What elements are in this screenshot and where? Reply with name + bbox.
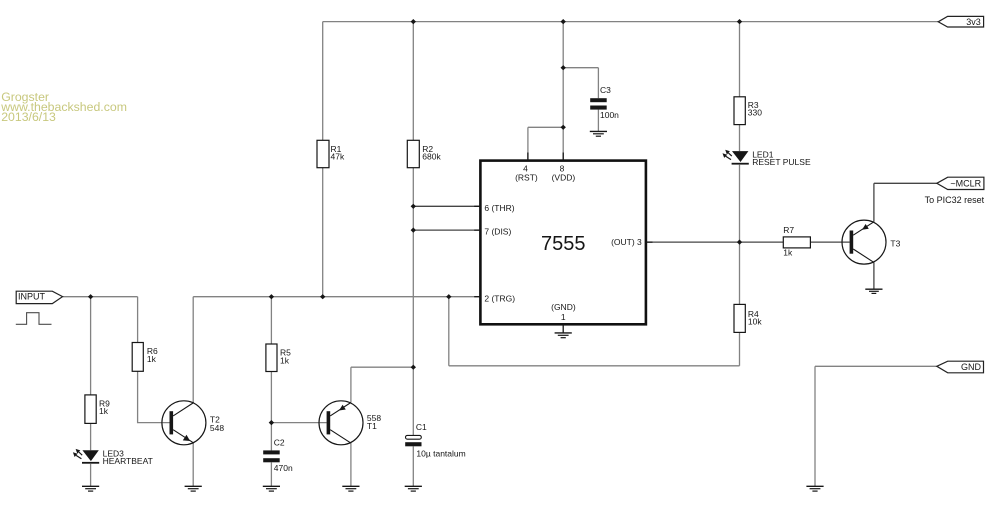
wire C3 top lead: [597, 68, 599, 99]
svg-text:T3: T3: [890, 239, 900, 249]
svg-text:1: 1: [561, 312, 566, 322]
LED LED1: [723, 149, 811, 167]
wire LED1 to OUT node: [739, 165, 741, 242]
transistor T1: [319, 401, 381, 445]
svg-text:1k: 1k: [99, 406, 109, 416]
wire R2 column top: [412, 22, 414, 141]
ground below C2: [263, 486, 280, 491]
svg-text:1k: 1k: [783, 248, 793, 258]
wire T1 bottom to ground: [350, 443, 352, 486]
svg-text:(GND): (GND): [551, 302, 576, 312]
junction OUT-R4: [737, 240, 742, 245]
resistor R5: [266, 344, 291, 372]
wire R2 to THR node: [412, 168, 414, 207]
svg-text:6 (THR): 6 (THR): [484, 203, 514, 213]
junction rail-R3: [737, 19, 742, 24]
wire C2 to ground: [270, 462, 272, 486]
wire VDD column: [562, 22, 564, 160]
svg-text:GND: GND: [961, 362, 982, 372]
wire T3 to MCLR tag: [874, 182, 937, 184]
wire T2 collector vertical: [192, 297, 194, 403]
junction DIS node: [411, 228, 416, 233]
svg-text:3v3: 3v3: [966, 17, 981, 27]
wire TRG row: [193, 296, 480, 298]
wire THR node to DIS node: [412, 206, 414, 230]
wire INPUT horizontal: [63, 296, 138, 298]
svg-text:T1: T1: [367, 421, 377, 431]
svg-text:7555: 7555: [541, 233, 586, 255]
wire T2 emitter to ground: [192, 443, 194, 486]
wire T3 top vertical: [873, 183, 875, 222]
svg-text:C1: C1: [416, 422, 427, 432]
junction rail-VDD: [561, 19, 566, 24]
svg-text:10k: 10k: [748, 316, 762, 326]
junction TRG-loop: [446, 294, 451, 299]
junction TRG-R1: [320, 294, 325, 299]
title text block: [0, 90, 127, 124]
junction INPUT-R9: [88, 294, 93, 299]
ground below LED3: [82, 486, 99, 491]
wire R4 bottom lead: [739, 332, 741, 365]
wire R6 top lead: [137, 297, 139, 343]
resistor R4: [734, 304, 762, 332]
wire C2 top lead: [270, 423, 272, 451]
IC pin stubs: [474, 153, 652, 333]
resistor R2: [407, 140, 441, 167]
ground below T2: [185, 486, 202, 491]
wire R6 bottom lead: [138, 371, 170, 422]
ground below C1: [405, 486, 422, 491]
wire R9 top lead: [90, 297, 92, 395]
ground below IC pin 1: [555, 333, 572, 338]
svg-text:C2: C2: [274, 437, 285, 447]
wire GND tag horizontal: [815, 365, 937, 367]
wire R4 bottom loop horizontal: [449, 365, 740, 367]
junction TRG-R5: [269, 294, 274, 299]
wire C3 bottom lead: [597, 110, 599, 132]
wire loop up to TRG row: [448, 297, 450, 366]
node INPUT tag: [16, 291, 62, 303]
wire R5 top lead: [270, 297, 272, 344]
svg-text:470n: 470n: [274, 463, 293, 473]
node 3v3 tag: [938, 16, 983, 27]
wire LED3 to ground: [90, 464, 92, 487]
wire T1 top horizontal to C1 node: [351, 366, 413, 368]
wire OUT node to R4: [739, 242, 741, 304]
svg-text:330: 330: [748, 108, 762, 118]
resistor R3: [734, 97, 762, 125]
node GND tag: [937, 361, 984, 373]
svg-text:2 (TRG): 2 (TRG): [484, 293, 515, 303]
svg-text:INPUT: INPUT: [18, 291, 46, 301]
LED LED3: [73, 449, 153, 466]
svg-text:(VDD): (VDD): [552, 173, 576, 183]
resistor R9: [85, 395, 110, 424]
resistor R7: [783, 225, 810, 258]
svg-text:680k: 680k: [422, 152, 441, 162]
wire T1 base horizontal: [271, 422, 326, 424]
wire THR pin: [413, 205, 480, 207]
wire OUT to R7: [646, 241, 783, 243]
resistor R1: [317, 140, 345, 167]
svg-text:RESET PULSE: RESET PULSE: [752, 157, 811, 167]
svg-text:To PIC32 reset: To PIC32 reset: [925, 195, 985, 205]
node ~MCLR tag: [937, 177, 984, 189]
svg-text:C3: C3: [600, 85, 611, 95]
svg-text:R7: R7: [783, 225, 794, 235]
wire R3 to LED1: [739, 125, 741, 152]
wire R9 to LED3: [90, 423, 92, 450]
junction T1 base node: [269, 420, 274, 425]
wire DIS node down to C1: [412, 230, 414, 435]
wire C3 branch horizontal: [563, 67, 598, 69]
junction rail-R2: [411, 19, 416, 24]
junction pin4 branch: [561, 125, 566, 130]
ground below T1: [342, 486, 359, 491]
capacitor C2: [263, 437, 293, 473]
wire DIS pin: [413, 229, 480, 231]
wire R1 column bottom to TRG row: [322, 168, 324, 297]
svg-text:(RST): (RST): [515, 173, 538, 183]
svg-text:7 (DIS): 7 (DIS): [484, 227, 511, 237]
svg-text:~MCLR: ~MCLR: [950, 178, 981, 188]
ground below T3: [865, 289, 882, 293]
wire 3v3 top rail: [323, 21, 939, 23]
ground below C3: [590, 131, 607, 136]
wire pin4 vertical: [527, 127, 529, 160]
resistor R6: [132, 343, 158, 372]
svg-text:1k: 1k: [280, 355, 290, 365]
wire pin4 branch horizontal: [528, 126, 563, 128]
wire R5 bottom lead: [270, 372, 272, 423]
transistor T3: [842, 220, 901, 264]
wire T1 top lead: [350, 367, 352, 402]
wire R3 column top: [739, 22, 741, 97]
svg-text:2013/6/13: 2013/6/13: [1, 110, 56, 124]
svg-text:100n: 100n: [600, 110, 619, 120]
junction C1 node: [411, 365, 416, 370]
wire R1 column top: [322, 22, 324, 141]
svg-text:(OUT) 3: (OUT) 3: [611, 237, 642, 247]
junction THR node: [411, 204, 416, 209]
op-amp U1 7555 timer IC body: [480, 161, 646, 325]
wire GND tag vertical to ground: [814, 366, 816, 486]
junction C3 branch: [561, 65, 566, 70]
wire C1 to ground: [412, 446, 414, 486]
input pulse symbol: [16, 313, 52, 325]
svg-text:548: 548: [210, 423, 224, 433]
capacitor C3: [590, 85, 619, 120]
wire R7 to T3 base: [810, 241, 849, 243]
svg-text:HEARTBEAT: HEARTBEAT: [103, 456, 153, 466]
svg-text:10µ tantalum: 10µ tantalum: [416, 449, 465, 459]
capacitor C1: [405, 422, 466, 458]
ground below GND tag wire: [806, 486, 823, 491]
transistor T2: [162, 401, 224, 445]
svg-text:1k: 1k: [147, 354, 157, 364]
svg-text:47k: 47k: [331, 152, 345, 162]
wire T3 bottom to ground: [873, 262, 875, 289]
